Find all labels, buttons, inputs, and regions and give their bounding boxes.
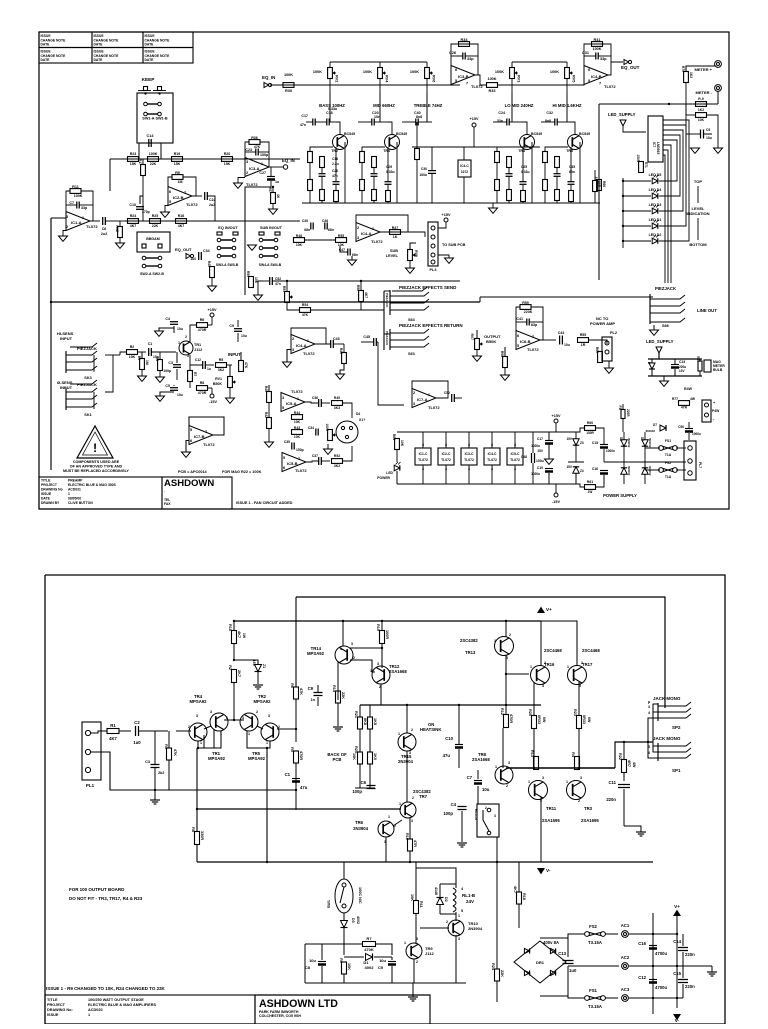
- capacitor C5 10u: [388, 961, 396, 963]
- svg-text:5: 5: [190, 428, 192, 432]
- resistor R55 10K: [336, 238, 347, 243]
- svg-text:TL072: TL072: [510, 458, 520, 462]
- svg-text:PL3: PL3: [430, 268, 437, 272]
- op-amp IC4-A left: [291, 335, 315, 354]
- svg-text:TL072: TL072: [487, 458, 497, 462]
- capacitor C49 10u: [700, 130, 702, 139]
- svg-text:C14: C14: [147, 134, 155, 138]
- svg-text:3: 3: [494, 814, 496, 818]
- svg-text:C15: C15: [673, 971, 681, 976]
- transistor TR6 2N3904: [378, 821, 394, 837]
- svg-text:470R: 470R: [509, 714, 513, 723]
- wire EQ_IN to pots: [270, 84, 460, 86]
- svg-text:C11: C11: [608, 780, 616, 785]
- svg-text:B50K: B50K: [213, 382, 223, 386]
- svg-text:3: 3: [411, 819, 413, 823]
- svg-text:MID 660HZ: MID 660HZ: [373, 103, 395, 108]
- svg-text:10u: 10u: [177, 393, 183, 397]
- capacitor C4 100p: [458, 806, 467, 808]
- svg-text:TL072: TL072: [295, 468, 307, 473]
- svg-text:3: 3: [210, 710, 212, 714]
- ground between switches: [248, 245, 257, 250]
- svg-text:R61: R61: [587, 480, 593, 484]
- svg-text:2N3904: 2N3904: [468, 926, 483, 931]
- svg-text:47K: 47K: [173, 749, 177, 756]
- op-amp IC6-B: [516, 331, 540, 350]
- svg-text:IC4-C: IC4-C: [460, 164, 469, 168]
- svg-text:2: 2: [509, 633, 511, 637]
- svg-text:8: 8: [514, 443, 516, 447]
- wire input jacks bus: [105, 354, 120, 356]
- svg-text:47R: 47R: [681, 406, 688, 410]
- svg-text:1: 1: [567, 665, 569, 669]
- wire led column: [622, 178, 624, 248]
- svg-text:8: 8: [445, 443, 447, 447]
- svg-text:1u0: 1u0: [190, 257, 196, 261]
- svg-text:7: 7: [298, 457, 300, 461]
- svg-text:PROJECT: PROJECT: [47, 1003, 66, 1007]
- svg-text:10K: 10K: [347, 963, 351, 970]
- svg-text:6n8: 6n8: [416, 115, 422, 119]
- svg-text:47u: 47u: [443, 753, 451, 758]
- jack LINE OUT: [649, 294, 651, 324]
- svg-text:TL072: TL072: [371, 239, 383, 244]
- capacitor C1 10n: [148, 348, 150, 356]
- svg-text:2SC4382: 2SC4382: [460, 638, 478, 643]
- svg-text:100K: 100K: [74, 194, 83, 198]
- svg-text:C9: C9: [308, 686, 314, 691]
- connector PL2: [602, 337, 612, 361]
- svg-text:DR1: DR1: [536, 960, 545, 965]
- ground C5: [156, 396, 165, 401]
- svg-text:1R: 1R: [581, 343, 586, 347]
- svg-text:TR3: TR3: [518, 149, 525, 153]
- svg-text:SP1: SP1: [672, 768, 681, 773]
- resistor R6 47K: [294, 687, 299, 699]
- svg-text:2: 2: [292, 337, 294, 341]
- svg-text:3: 3: [242, 716, 244, 720]
- svg-text:LO MID 240HZ: LO MID 240HZ: [505, 103, 534, 108]
- svg-text:6: 6: [190, 439, 192, 443]
- svg-text:10n: 10n: [374, 115, 380, 119]
- svg-text:1M: 1M: [178, 180, 183, 184]
- bridge rectifier DR1 400V 8A: [514, 941, 566, 983]
- wire line out bus: [480, 296, 653, 298]
- wire output collectors: [505, 621, 507, 637]
- svg-text:DATE: DATE: [145, 43, 155, 47]
- svg-text:22K: 22K: [150, 162, 157, 166]
- wire bulb rail bottom: [648, 375, 702, 377]
- svg-text:3: 3: [542, 684, 544, 688]
- ground IC7-B: [182, 452, 191, 457]
- resistor R49 3K3: [332, 401, 343, 406]
- svg-text:5: 5: [461, 909, 463, 913]
- svg-text:C20: C20: [332, 169, 338, 173]
- svg-text:R8: R8: [191, 827, 195, 832]
- svg-text:15K: 15K: [224, 162, 231, 166]
- resistor R17 22K vertical: [141, 165, 146, 176]
- V+ arrow page2: [537, 607, 545, 613]
- ground psu mid: [545, 459, 554, 464]
- svg-text:1: 1: [82, 216, 84, 220]
- svg-text:INPUT: INPUT: [228, 352, 241, 357]
- svg-text:2: 2: [506, 784, 508, 788]
- svg-text:1K: 1K: [393, 235, 398, 239]
- svg-text:1K0: 1K0: [373, 753, 377, 760]
- svg-text:Z3: Z3: [580, 441, 584, 445]
- svg-text:C2: C2: [134, 720, 140, 725]
- svg-text:R41: R41: [594, 38, 601, 42]
- svg-text:10K: 10K: [294, 420, 301, 424]
- resistor bank TR2: [308, 152, 313, 163]
- svg-text:3: 3: [580, 776, 582, 780]
- wire jack buses: [653, 704, 658, 742]
- resistor R68: [696, 102, 707, 107]
- connector P4W: [702, 400, 711, 422]
- svg-text:100K: 100K: [487, 77, 496, 81]
- svg-text:6W: 6W: [542, 717, 546, 723]
- page 1 border: [39, 32, 729, 509]
- svg-text:C31: C31: [582, 51, 589, 55]
- wire psu bus page2: [652, 913, 654, 1014]
- transistor TR5: [568, 135, 583, 150]
- capacitor C2 1u0: [135, 726, 137, 736]
- svg-text:IC4-A: IC4-A: [296, 343, 307, 348]
- svg-text:R42: R42: [264, 412, 268, 418]
- wire switch column: [244, 232, 246, 295]
- svg-text:2SC4468: 2SC4468: [582, 648, 600, 653]
- svg-text:R57: R57: [268, 187, 272, 193]
- supply +15V PL3: [444, 218, 448, 222]
- capacitor C10 470p: [136, 206, 144, 208]
- svg-text:1W: 1W: [588, 490, 593, 494]
- resistor R13 0R33 6W: [534, 757, 539, 770]
- capacitor C19 1000u: [545, 468, 553, 470]
- svg-text:DO NOT FIT - TR3, TR17, R4 &: DO NOT FIT - TR3, TR17, R4 & R23: [69, 896, 143, 901]
- wire output to jacks riser: [615, 742, 653, 768]
- svg-text:ISSUE 1 - FAN CIRCUIT ADDED: ISSUE 1 - FAN CIRCUIT ADDED: [236, 501, 293, 505]
- svg-text:C12: C12: [638, 975, 646, 980]
- terminal METER-: [715, 85, 722, 92]
- transistor TR3: [520, 135, 535, 150]
- svg-text:6: 6: [455, 68, 457, 72]
- svg-text:R20: R20: [224, 152, 231, 156]
- wire TR5 collector to R5: [277, 728, 296, 730]
- resistor R2 2K7: [232, 670, 237, 683]
- ground relay driver: [408, 996, 418, 998]
- capacitor C16 4700u: [649, 945, 657, 947]
- svg-text:6: 6: [588, 68, 590, 72]
- svg-text:3: 3: [66, 215, 68, 219]
- svg-text:R6: R6: [200, 318, 205, 322]
- svg-text:8: 8: [468, 443, 470, 447]
- wire psu -rail: [397, 483, 572, 485]
- svg-text:.: .: [164, 489, 165, 493]
- svg-text:TITLE: TITLE: [41, 479, 51, 483]
- terminal METER+: [715, 61, 722, 68]
- ground PL2: [605, 368, 614, 373]
- svg-text:FB: FB: [618, 406, 622, 411]
- svg-text:R44: R44: [294, 411, 300, 415]
- resistor R7 470K: [363, 942, 376, 947]
- resistor R57 47K: [271, 193, 276, 204]
- svg-text:100K: 100K: [149, 152, 158, 156]
- svg-text:RV4: RV4: [385, 75, 389, 83]
- diode D8 IN4002: [621, 468, 627, 474]
- ground psu page2: [707, 971, 717, 973]
- svg-text:TR1: TR1: [194, 343, 201, 347]
- capacitor C62: [451, 394, 453, 402]
- svg-text:R5: R5: [219, 358, 224, 362]
- svg-text:100p: 100p: [352, 789, 362, 794]
- resistor R16 4K7: [176, 219, 187, 224]
- svg-text:BC549: BC549: [579, 132, 590, 136]
- lamp MAG METER BULB: [704, 360, 711, 372]
- svg-text:R47: R47: [392, 226, 399, 230]
- wire input pair bottoms: [198, 731, 221, 748]
- resistor R59 220K: [516, 307, 520, 331]
- svg-text:R7: R7: [366, 936, 372, 941]
- svg-text:1: 1: [248, 732, 250, 736]
- svg-text:1: 1: [458, 914, 460, 918]
- svg-text:2: 2: [446, 920, 448, 924]
- svg-text:33n: 33n: [497, 119, 503, 123]
- wire relay driver gnd: [305, 982, 466, 984]
- capacitor C45: [373, 338, 375, 346]
- svg-text:6: 6: [517, 334, 519, 338]
- svg-text:2: 2: [185, 335, 187, 339]
- svg-text:LEVEL: LEVEL: [386, 254, 399, 258]
- diode D1 4002: [366, 954, 373, 961]
- svg-text:C29: C29: [386, 165, 392, 169]
- svg-text:150R: 150R: [586, 431, 594, 435]
- svg-text:IC4-B: IC4-B: [591, 74, 602, 79]
- svg-text:PIEZJACK: PIEZJACK: [385, 293, 389, 308]
- svg-text:SK1: SK1: [84, 413, 91, 417]
- capacitor bank TR2 top caps: [312, 119, 314, 126]
- capacitor C8 10u: [318, 961, 326, 963]
- transistor TR1 MPSA92: [210, 713, 228, 731]
- svg-text:R11: R11: [72, 185, 79, 189]
- svg-text:S66: S66: [662, 324, 669, 328]
- svg-text:C13: C13: [558, 951, 566, 956]
- svg-text:TR17: TR17: [582, 662, 593, 667]
- svg-text:IC3-B: IC3-B: [458, 74, 469, 79]
- resistor R24 4K7: [128, 219, 139, 224]
- svg-text:4: 4: [491, 467, 493, 471]
- ground R57: [269, 209, 278, 214]
- wire C7 to relay: [477, 786, 479, 804]
- terminal AC2: [622, 963, 629, 970]
- capacitor C9 10u: [234, 328, 242, 330]
- resistor R44 10K: [292, 415, 303, 420]
- fan motor M1: [336, 421, 358, 443]
- svg-text:1: 1: [372, 227, 374, 231]
- svg-text:C7: C7: [467, 775, 473, 780]
- pot R51: [285, 292, 290, 303]
- capacitor C31 33p: [595, 53, 597, 60]
- wire TR15 vertical: [406, 705, 408, 733]
- svg-text:R16: R16: [228, 624, 232, 631]
- capacitor C14 220n: [678, 947, 688, 949]
- svg-text:TOP: TOP: [694, 179, 703, 184]
- svg-text:R70: R70: [681, 66, 685, 72]
- resistor bank TR3: [495, 152, 500, 163]
- svg-text:R54: R54: [302, 303, 308, 307]
- svg-text:IC3-C: IC3-C: [465, 452, 474, 456]
- svg-text:7: 7: [599, 82, 601, 86]
- svg-text:PREAMP: PREAMP: [68, 479, 83, 483]
- diode D9 IN4002: [642, 468, 648, 474]
- svg-text:1u: 1u: [275, 180, 279, 184]
- page 2 border: [45, 575, 725, 1024]
- svg-text:4002: 4002: [365, 965, 375, 970]
- svg-text:TL072: TL072: [186, 202, 198, 207]
- svg-text:100K: 100K: [313, 70, 322, 74]
- diode D7 IN4002: [642, 440, 648, 446]
- svg-text:IN4002: IN4002: [627, 438, 631, 448]
- svg-text:0.33u: 0.33u: [386, 170, 395, 174]
- svg-text:S64: S64: [408, 318, 416, 322]
- svg-text:10K: 10K: [254, 277, 258, 284]
- svg-text:25V: 25V: [537, 449, 543, 453]
- capacitor bank TR4 top caps: [371, 119, 373, 126]
- svg-text:3K3: 3K3: [334, 406, 340, 410]
- svg-text:C5: C5: [165, 384, 170, 388]
- ground C4: [155, 331, 164, 336]
- svg-text:V-: V-: [675, 1018, 680, 1023]
- wire fx send feeder: [383, 291, 385, 350]
- svg-text:R60: R60: [587, 421, 593, 425]
- svg-text:X1?: X1?: [359, 418, 365, 422]
- svg-text:C35: C35: [284, 440, 290, 444]
- resistor R11 100K: [66, 191, 70, 212]
- svg-text:DATE: DATE: [94, 43, 104, 47]
- svg-text:C46: C46: [322, 219, 328, 223]
- svg-text:C17: C17: [537, 437, 543, 441]
- svg-text:C35: C35: [569, 165, 575, 169]
- ground R58: [501, 375, 510, 380]
- svg-text:C3: C3: [168, 361, 173, 365]
- capacitor C43: [330, 340, 332, 348]
- capacitor C47 68n: [347, 249, 349, 256]
- zener Z1 16V: [255, 665, 262, 672]
- svg-text:CLIVE BUTTON: CLIVE BUTTON: [68, 501, 93, 505]
- svg-text:100K: 100K: [284, 73, 293, 77]
- capacitor C1 47u: [292, 778, 300, 780]
- svg-text:4: 4: [445, 467, 447, 471]
- resistor R10 47K: [239, 361, 244, 372]
- ground IC3-A: [234, 183, 243, 188]
- svg-text:4W: 4W: [632, 762, 636, 768]
- diode D6 IN4002: [621, 440, 627, 446]
- svg-text:R4: R4: [155, 357, 159, 361]
- capacitor C10 47u: [455, 744, 463, 746]
- svg-text:MPSA92: MPSA92: [248, 756, 266, 761]
- svg-text:DATE: DATE: [145, 58, 155, 62]
- svg-text:FOR 100 OUTPUT BOARD: FOR 100 OUTPUT BOARD: [69, 887, 125, 892]
- svg-text:+15V: +15V: [208, 308, 217, 312]
- svg-text:R12: R12: [500, 708, 504, 715]
- svg-text:IC4-A: IC4-A: [361, 231, 372, 236]
- svg-text:C5: C5: [378, 965, 384, 970]
- resistor R41 100K feedback: [584, 44, 611, 75]
- svg-text:R34: R34: [461, 38, 469, 42]
- svg-text:15V: 15V: [566, 437, 572, 441]
- svg-text:R2: R2: [130, 345, 135, 349]
- svg-text:47K: 47K: [299, 688, 303, 695]
- resistor R1 4K7: [107, 729, 119, 734]
- svg-text:100C N/C: 100C N/C: [358, 887, 362, 904]
- relay coil RL1-B: [455, 884, 457, 888]
- svg-text:LED: LED: [386, 471, 393, 475]
- svg-text:C45: C45: [363, 335, 370, 339]
- svg-text:1: 1: [404, 941, 406, 945]
- svg-text:220n: 220n: [685, 952, 695, 957]
- svg-text:MPSA92: MPSA92: [189, 699, 207, 704]
- svg-text:2K7: 2K7: [237, 670, 241, 677]
- resistor R5 3K2: [216, 363, 227, 368]
- capacitor C34b 100p: [315, 429, 317, 436]
- ground R12: [119, 238, 121, 244]
- svg-text:SUB: SUB: [390, 249, 398, 253]
- svg-text:1u0: 1u0: [569, 968, 577, 973]
- svg-text:100R: 100R: [385, 630, 389, 639]
- ground R14: [333, 726, 343, 728]
- svg-text:BC549: BC549: [344, 132, 355, 136]
- wire fx feed y=281: [272, 280, 460, 282]
- svg-text:3: 3: [292, 348, 294, 352]
- svg-text:T1A: T1A: [665, 475, 672, 479]
- capacitor bank TR3 top caps: [506, 119, 508, 126]
- capacitor C41 63p: [526, 319, 528, 326]
- fuse FS2 psu: [659, 468, 664, 473]
- svg-text:!: !: [93, 441, 97, 455]
- svg-text:C18: C18: [326, 111, 333, 115]
- transistor TR12 2SA1668: [372, 666, 390, 684]
- svg-text:1n: 1n: [311, 698, 316, 702]
- svg-text:10V: 10V: [679, 369, 685, 373]
- svg-text:B50K: B50K: [486, 339, 496, 344]
- svg-text:150R: 150R: [636, 155, 640, 163]
- ground RV8: [406, 268, 415, 273]
- resistor R43 10K: [292, 430, 303, 435]
- wire C45 to K7A: [378, 342, 404, 405]
- ground R42: [265, 442, 274, 447]
- resistor R3 47K: [167, 748, 172, 760]
- svg-text:C6: C6: [102, 227, 107, 231]
- svg-text:R50: R50: [246, 271, 250, 277]
- svg-text:MPSA92: MPSA92: [307, 651, 325, 656]
- svg-text:PL1: PL1: [86, 783, 95, 788]
- svg-text:R8: R8: [200, 381, 205, 385]
- svg-text:1: 1: [266, 741, 268, 745]
- svg-text:TREBLE 74HZ: TREBLE 74HZ: [414, 103, 443, 108]
- ground PL3: [445, 258, 454, 263]
- resistor R25 10K: [358, 752, 363, 764]
- fuse FS2: [585, 932, 590, 937]
- ground meter 2: [714, 148, 723, 153]
- svg-text:1000u: 1000u: [531, 444, 540, 448]
- svg-text:2.2u: 2.2u: [332, 162, 339, 166]
- resistor bank TR5: [543, 152, 548, 163]
- ground RV1: [226, 398, 235, 403]
- wire meter bus: [599, 103, 718, 105]
- switch SW2 contacts: [142, 256, 146, 260]
- svg-text:C3: C3: [145, 760, 150, 764]
- wire output node: [506, 767, 615, 769]
- svg-text:0.33u: 0.33u: [521, 170, 530, 174]
